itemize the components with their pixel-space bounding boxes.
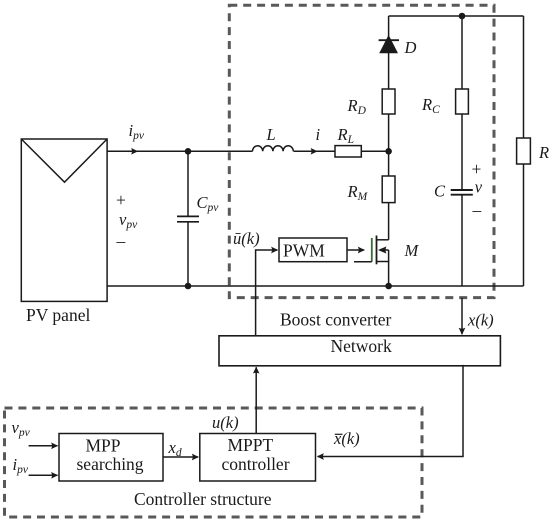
svg-text:u(k): u(k) bbox=[212, 413, 239, 432]
wire: top rail to R bbox=[523, 16, 525, 138]
wire: top from PV to inductor bbox=[107, 150, 252, 152]
svg-text:MPPT: MPPT bbox=[228, 435, 274, 455]
inductor L bbox=[253, 146, 294, 152]
wire: C to bottom rail bbox=[461, 195, 463, 286]
arrow i on wire bbox=[313, 150, 317, 152]
svg-text:MPP: MPP bbox=[86, 436, 121, 456]
label x-bar(k) bbox=[333, 429, 360, 448]
node: center junction bbox=[385, 148, 392, 155]
wire: v_pv input arrow bbox=[29, 445, 58, 447]
resistor R bbox=[517, 138, 531, 164]
svg-text:controller: controller bbox=[222, 454, 290, 474]
svg-text:Boost converter: Boost converter bbox=[280, 310, 391, 330]
Network box bbox=[219, 336, 500, 366]
PV panel chevron bbox=[21, 139, 107, 182]
wire: bottom rail bbox=[107, 285, 523, 287]
svg-text:i: i bbox=[316, 125, 321, 144]
svg-text:+: + bbox=[472, 159, 482, 179]
capacitor C bbox=[451, 189, 473, 191]
wire: x_d arrow MPP to MPPT bbox=[163, 456, 198, 458]
svg-text:Controller structure: Controller structure bbox=[134, 489, 272, 509]
node: bottom left bbox=[185, 283, 192, 290]
wire: x(k) down to network bbox=[461, 298, 463, 334]
node: junction C_pv top bbox=[185, 148, 192, 155]
capacitor C_pv bbox=[187, 151, 189, 216]
PWM box bbox=[279, 238, 347, 262]
wire: R_C to C bbox=[461, 114, 463, 190]
wire: R_L to node bbox=[361, 150, 388, 152]
svg-text:–: – bbox=[116, 231, 126, 251]
node: top rail junction bbox=[459, 13, 466, 20]
resistor R_M bbox=[382, 176, 395, 203]
resistor R_C bbox=[456, 89, 469, 114]
svg-text:x(k): x(k) bbox=[333, 429, 360, 448]
diode D bbox=[380, 36, 397, 53]
svg-text:+: + bbox=[116, 190, 126, 210]
wire: R to bottom rail bbox=[523, 164, 525, 286]
svg-text:searching: searching bbox=[77, 454, 144, 474]
wire: top rail bbox=[389, 15, 524, 17]
wire: node up to R_D bbox=[388, 114, 390, 151]
arrow on top wire bbox=[128, 150, 138, 152]
node: MOSFET source to bottom rail bbox=[385, 283, 392, 290]
MPP searching box bbox=[59, 434, 163, 482]
svg-text:C: C bbox=[434, 182, 446, 201]
wire: node down to R_M bbox=[388, 151, 390, 176]
svg-text:v: v bbox=[475, 178, 483, 197]
svg-text:–: – bbox=[472, 200, 482, 220]
wire: node down to R_C bbox=[461, 16, 463, 89]
svg-text:D: D bbox=[404, 38, 417, 57]
MPPT controller box bbox=[200, 434, 316, 482]
svg-text:L: L bbox=[266, 125, 276, 144]
svg-text:Network: Network bbox=[331, 336, 392, 356]
controller structure dashed box bbox=[5, 408, 423, 517]
wire: PWM to gate bbox=[347, 249, 364, 251]
resistor R_L bbox=[335, 146, 361, 157]
svg-text:ū(k): ū(k) bbox=[233, 229, 260, 248]
wire: inductor to R_L bbox=[294, 150, 336, 152]
PV panel bbox=[21, 139, 107, 301]
wire: u(k) up from network to PWM bbox=[256, 250, 278, 336]
resistor R_D bbox=[382, 89, 395, 114]
wire: R_D to diode bbox=[388, 53, 390, 89]
svg-text:R: R bbox=[538, 143, 549, 162]
svg-text:PWM: PWM bbox=[283, 241, 325, 261]
wire: i_pv input arrow bbox=[29, 474, 58, 476]
boost converter dashed box bbox=[229, 5, 494, 297]
wire: R_M to MOSFET drain bbox=[388, 203, 390, 240]
wire: u(k) from MPPT up to network bbox=[255, 367, 257, 433]
wire: diode to top rail bbox=[388, 16, 390, 37]
svg-text:M: M bbox=[404, 241, 420, 260]
svg-text:PV panel: PV panel bbox=[26, 305, 90, 325]
wire: x-bar(k) feedback from network to MPPT bbox=[318, 365, 464, 457]
svg-text:x(k): x(k) bbox=[467, 311, 494, 330]
transistor M (MOSFET) bbox=[354, 236, 389, 287]
